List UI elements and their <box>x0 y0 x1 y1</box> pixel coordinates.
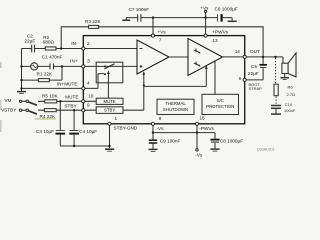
svg-text:www.datasheet.co: www.datasheet.co <box>35 117 57 121</box>
svg-text:+Vs: +Vs <box>158 29 167 34</box>
svg-text:D93AU011: D93AU011 <box>257 148 275 152</box>
svg-text:C8 1000µF: C8 1000µF <box>220 138 243 143</box>
svg-text:22µF: 22µF <box>248 71 259 76</box>
svg-text:S/C: S/C <box>217 98 224 103</box>
svg-text:C10: C10 <box>285 102 293 107</box>
svg-text:9: 9 <box>87 102 90 107</box>
svg-text:THERMAL: THERMAL <box>165 101 186 106</box>
svg-text:+PWVs: +PWVs <box>212 29 228 34</box>
svg-text:R6: R6 <box>288 85 294 90</box>
svg-text:3: 3 <box>87 59 90 64</box>
svg-text:R5 10K: R5 10K <box>42 93 59 98</box>
svg-text:10: 10 <box>88 93 94 98</box>
svg-text:MUTE: MUTE <box>104 99 116 104</box>
svg-text:PROTECTION: PROTECTION <box>206 104 234 109</box>
svg-text:R3 22K: R3 22K <box>85 19 102 24</box>
svg-text:+Vs: +Vs <box>200 5 209 10</box>
svg-text:STBY-GND: STBY-GND <box>114 126 138 131</box>
svg-text:STBY: STBY <box>104 108 115 113</box>
svg-text:-Vs: -Vs <box>195 152 203 157</box>
svg-text:100nF: 100nF <box>284 108 296 113</box>
svg-text:2: 2 <box>87 41 90 46</box>
svg-text:4: 4 <box>87 80 90 85</box>
svg-text:-PWVs: -PWVs <box>199 126 214 131</box>
svg-text:C5: C5 <box>251 64 257 69</box>
svg-text:680Ω: 680Ω <box>43 40 55 45</box>
svg-text:1: 1 <box>115 116 118 121</box>
svg-text:IN+: IN+ <box>70 59 78 64</box>
svg-text:-Vs: -Vs <box>157 126 165 131</box>
svg-text:2.7Ω: 2.7Ω <box>287 92 296 97</box>
svg-text:R1 22K: R1 22K <box>37 71 54 76</box>
svg-text:8: 8 <box>159 116 162 121</box>
svg-text:14: 14 <box>235 49 241 54</box>
svg-text:STRAP: STRAP <box>249 86 263 91</box>
svg-text:MUTE: MUTE <box>65 94 78 99</box>
svg-text:IN+MUTE: IN+MUTE <box>57 82 78 87</box>
svg-text:22µF: 22µF <box>24 38 35 43</box>
svg-text:13: 13 <box>212 38 218 43</box>
svg-text:SHUTDOWN: SHUTDOWN <box>163 107 188 112</box>
svg-text:C4 10µF: C4 10µF <box>79 129 97 134</box>
svg-text:C7 100nF: C7 100nF <box>129 7 150 12</box>
svg-text:6: 6 <box>239 76 242 81</box>
svg-text:C3 10µF: C3 10µF <box>36 129 54 134</box>
svg-text:15: 15 <box>200 116 206 121</box>
svg-text:STBY: STBY <box>64 104 77 109</box>
svg-text:OUT: OUT <box>250 49 260 54</box>
svg-text:IN-: IN- <box>71 41 78 46</box>
svg-text:7: 7 <box>159 37 162 42</box>
svg-text:C6 1000µF: C6 1000µF <box>215 7 238 12</box>
svg-text:C9 100nF: C9 100nF <box>160 139 181 144</box>
svg-text:C1 470nF: C1 470nF <box>42 55 63 60</box>
svg-text:VSTBY: VSTBY <box>1 107 17 112</box>
svg-text:VM: VM <box>4 98 11 103</box>
